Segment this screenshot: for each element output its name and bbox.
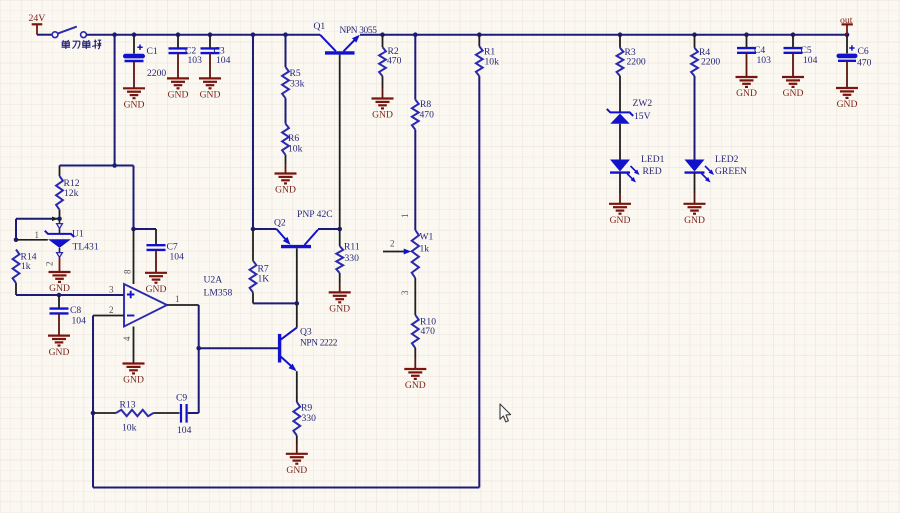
svg-text:104: 104: [72, 316, 87, 327]
resistor R12 12k: [56, 166, 80, 219]
switch S1 single-pole single-throw: [52, 27, 86, 38]
label switch 单刀单掷 (SPST): [62, 40, 102, 49]
svg-text:ZW2: ZW2: [633, 98, 653, 109]
wire Q3 emitter down to R9: [296, 371, 298, 402]
svg-text:W1: W1: [420, 232, 434, 243]
wire R5 to R6: [285, 98, 287, 123]
wire rail down to Q2 emitter node: [252, 35, 254, 229]
svg-text:C6: C6: [858, 46, 869, 57]
ground of C4: [736, 77, 758, 99]
svg-text:GND: GND: [124, 100, 145, 111]
svg-text:GND: GND: [405, 380, 426, 391]
svg-text:330: 330: [345, 253, 360, 264]
svg-text:C9: C9: [176, 393, 187, 404]
capacitor C6 470 electrolytic: [837, 35, 872, 88]
svg-text:GREEN: GREEN: [715, 166, 747, 177]
svg-text:GND: GND: [684, 215, 705, 226]
svg-text:R8: R8: [420, 99, 431, 110]
wire right then down to op-amp pin 8 node: [115, 165, 134, 167]
svg-text:GND: GND: [49, 347, 70, 358]
wire R3 to ZW2: [619, 76, 621, 112]
wire to op-amp pin 3: [16, 294, 124, 296]
svg-text:C1: C1: [147, 46, 158, 57]
svg-text:1: 1: [400, 214, 410, 219]
wire output node to Q3 base: [199, 347, 279, 349]
svg-text:2200: 2200: [147, 68, 166, 79]
svg-text:1K: 1K: [258, 274, 270, 285]
svg-text:C8: C8: [70, 305, 81, 316]
wire: main +24V rail left part: [86, 34, 320, 36]
junction C8 tap: [57, 293, 62, 298]
svg-text:TL431: TL431: [73, 242, 99, 253]
node: TL431 cathode junction: [57, 217, 62, 222]
svg-text:1k: 1k: [21, 261, 31, 272]
svg-text:2: 2: [45, 262, 55, 267]
LED1 RED: [610, 154, 665, 183]
svg-text:2200: 2200: [627, 57, 646, 68]
pin 1 output wire: [167, 304, 199, 306]
resistor R14 1k: [13, 250, 37, 296]
wire Q2 emitter node: [253, 228, 277, 230]
pin C3 top: [209, 35, 211, 49]
wire R7 bottom to Q2 base node: [253, 302, 297, 304]
svg-text:3: 3: [109, 285, 114, 295]
wire R1 down to bottom feedback rail: [478, 76, 480, 487]
wire rail to R5: [285, 35, 287, 67]
pin 8 (V+): [133, 229, 135, 284]
svg-text:10k: 10k: [122, 423, 137, 434]
wire to R12 top: [60, 165, 115, 167]
junction at R12 node: [112, 163, 117, 168]
resistor R10 470: [412, 315, 436, 348]
wire pin2 column down to bottom feedback rail: [92, 413, 94, 488]
wire cathode to left: [16, 218, 60, 220]
op-amp U2A LM358: [109, 229, 232, 363]
ground of C6: [836, 88, 858, 110]
power port out: [840, 15, 853, 35]
resistor R2 470: [379, 35, 401, 99]
svg-text:PNP 42C: PNP 42C: [297, 209, 333, 220]
svg-text:2: 2: [109, 305, 114, 315]
transistor Q1 NPN 3055: [314, 21, 378, 53]
wire R4 to LED2: [694, 76, 696, 160]
resistor R9 330: [293, 402, 316, 454]
svg-text:GND: GND: [329, 304, 350, 315]
svg-text:GND: GND: [168, 90, 189, 101]
svg-text:LED2: LED2: [715, 154, 739, 165]
svg-text:U1: U1: [72, 229, 84, 240]
op-amp U1 TL431 shunt reference: [35, 219, 99, 272]
capacitor C7 104: [147, 229, 185, 273]
svg-text:GND: GND: [49, 283, 70, 294]
resistor R1 10k: [476, 35, 499, 76]
svg-text:12k: 12k: [64, 188, 79, 199]
svg-text:RED: RED: [643, 166, 662, 177]
wire down left side: [15, 219, 17, 240]
wire rail to R8: [414, 35, 416, 100]
svg-text:GND: GND: [286, 465, 307, 476]
ground of C7: [145, 273, 167, 295]
svg-text:103: 103: [188, 55, 203, 66]
svg-text:GND: GND: [736, 88, 757, 99]
wire op-amp output down: [198, 305, 200, 348]
svg-text:24V: 24V: [29, 13, 46, 24]
transistor Q3 NPN 2222: [280, 327, 338, 372]
svg-text:GND: GND: [610, 215, 631, 226]
svg-text:GND: GND: [146, 284, 167, 295]
svg-text:LM358: LM358: [204, 288, 233, 299]
svg-text:4: 4: [122, 336, 132, 341]
svg-text:330: 330: [302, 413, 317, 424]
wire Q1 base down: [339, 55, 341, 229]
potentiometer W1 1k: [383, 214, 434, 296]
svg-text:470: 470: [857, 58, 872, 69]
wire W1 to R10: [414, 278, 416, 315]
svg-text:Q2: Q2: [274, 218, 286, 229]
svg-text:470: 470: [420, 110, 435, 121]
wire ZW2 to LED1: [619, 124, 621, 160]
ground of R6: [275, 174, 297, 196]
wire from rail down to R12 node: [114, 35, 116, 166]
resistor R5 33k: [282, 67, 304, 98]
svg-text:R11: R11: [344, 242, 360, 253]
ground of LED1: [609, 204, 631, 226]
ground of C3: [199, 78, 221, 100]
wire to C7: [134, 228, 157, 230]
svg-text:R9: R9: [301, 403, 312, 414]
wiper wire and arrow (pin 2): [383, 251, 405, 253]
mouse cursor: [500, 404, 511, 422]
wire output node down to C9: [198, 348, 200, 413]
svg-text:1k: 1k: [420, 244, 430, 255]
svg-text:GND: GND: [123, 375, 144, 386]
wire from 24V to switch: [37, 34, 52, 36]
svg-text:GND: GND: [837, 99, 858, 110]
svg-text:104: 104: [177, 425, 192, 436]
svg-text:LED1: LED1: [641, 154, 665, 165]
svg-text:GND: GND: [275, 185, 296, 196]
svg-text:104: 104: [216, 55, 231, 66]
wire R8 to W1: [414, 130, 416, 230]
pin C5 top: [792, 35, 794, 48]
wire Q2 base node down to Q3 collector: [296, 303, 298, 327]
ground of R9: [286, 454, 308, 476]
ground of R2: [372, 99, 394, 121]
capacitor C4: [737, 45, 771, 66]
resistor R7 1K: [250, 229, 270, 303]
wire Q2 collector to R11 node: [318, 228, 340, 230]
svg-text:R13: R13: [120, 400, 136, 411]
pin C4 top: [746, 35, 748, 48]
svg-text:1: 1: [35, 230, 40, 240]
svg-text:Q3: Q3: [300, 327, 312, 338]
power port 24V: [29, 13, 46, 35]
ground of C1: [123, 88, 145, 110]
svg-text:470: 470: [387, 56, 402, 67]
svg-text:10k: 10k: [288, 144, 303, 155]
resistor R8 470: [412, 99, 434, 130]
resistor R6 10k: [282, 124, 302, 155]
ground of C5: [782, 77, 804, 99]
resistor R11 330: [336, 229, 360, 292]
svg-text:2: 2: [390, 239, 395, 249]
svg-text:10k: 10k: [485, 57, 500, 68]
svg-text:470: 470: [421, 326, 436, 337]
capacitor C2: [169, 46, 203, 67]
wire: TL431 ref pin: [16, 239, 48, 241]
wire Q2 base down: [296, 248, 298, 303]
transistor Q2 PNP 42C: [274, 209, 333, 247]
svg-text:Q1: Q1: [314, 21, 326, 32]
svg-text:103: 103: [757, 55, 772, 66]
svg-text:104: 104: [170, 252, 185, 263]
capacitor C8 104: [50, 295, 87, 336]
resistor R3 2200: [617, 35, 646, 76]
ground of C8: [48, 336, 70, 358]
ground of R10: [404, 369, 426, 391]
zener diode ZW2 15V: [607, 98, 653, 124]
pin C3 bottom: [209, 53, 211, 78]
resistor R4 2200: [691, 35, 720, 76]
svg-text:1: 1: [175, 294, 180, 304]
svg-text:33k: 33k: [290, 79, 305, 90]
svg-text:U2A: U2A: [204, 275, 223, 286]
wire bottom feedback rail: [93, 487, 479, 489]
ground of C2: [167, 78, 189, 100]
wire: main rail right part: [360, 34, 847, 36]
svg-text:R5: R5: [290, 68, 301, 79]
svg-text:out: out: [840, 15, 853, 26]
svg-text:8: 8: [123, 269, 133, 274]
junction dots on rail: [112, 32, 117, 37]
svg-text:NPN 2222: NPN 2222: [300, 339, 338, 349]
ground of LED2: [684, 204, 706, 226]
svg-text:R6: R6: [288, 133, 299, 144]
svg-text:GND: GND: [783, 88, 804, 99]
svg-text:15V: 15V: [634, 111, 651, 122]
pin C2 top: [177, 35, 179, 49]
svg-text:GND: GND: [372, 110, 393, 121]
svg-text:3: 3: [400, 290, 410, 295]
capacitor C3: [201, 46, 231, 67]
wire op-amp pin 2 to feedback column: [93, 315, 124, 317]
resistor R13 10k: [93, 400, 180, 434]
capacitor C1 2200 electrolytic: [123, 35, 166, 88]
pin 4 (V-): [133, 327, 135, 364]
svg-text:NPN 3055: NPN 3055: [340, 26, 378, 36]
ground of U1 TL431: [49, 272, 71, 294]
ground of U2A: [123, 364, 145, 386]
svg-text:104: 104: [803, 55, 818, 66]
LED2 GREEN: [685, 154, 748, 183]
svg-text:2200: 2200: [701, 57, 720, 68]
capacitor C9 104 (horizontal): [176, 393, 192, 437]
ground of R11: [329, 292, 351, 314]
pin C2 bottom: [177, 53, 179, 78]
capacitor C5: [784, 45, 818, 66]
svg-text:GND: GND: [200, 90, 221, 101]
